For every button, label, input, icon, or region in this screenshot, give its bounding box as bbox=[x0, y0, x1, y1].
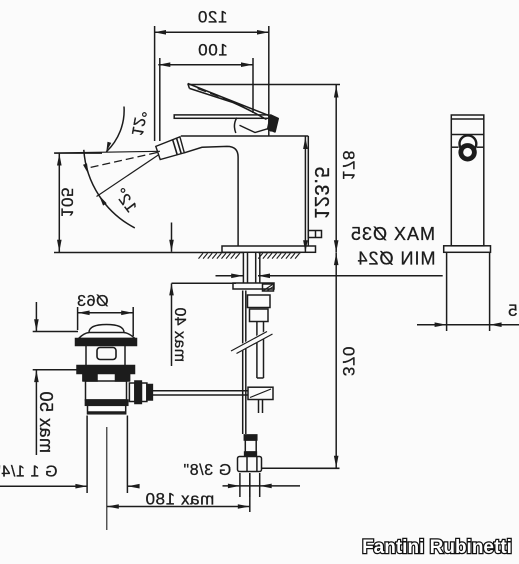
drain side port ribbed nut bbox=[129, 381, 152, 404]
dimension Ø63 line with arrows bbox=[78, 311, 134, 316]
dimension 100 line with arrows bbox=[158, 62, 253, 67]
dimension max 50 ref line top bbox=[33, 331, 78, 333]
drain bottom collar bbox=[88, 405, 126, 414]
dimension 105 line with arrows bbox=[57, 153, 62, 252]
handle heel notch bbox=[240, 125, 272, 132]
svg-text:370: 370 bbox=[339, 346, 358, 376]
dimension 105 text bbox=[58, 187, 77, 217]
dimension max 50 upper arrow bbox=[34, 302, 39, 332]
nut extension lines below bbox=[240, 473, 260, 497]
lever handle dashed midline bbox=[198, 89, 260, 112]
hose end nut G3/8 bbox=[238, 457, 262, 472]
angle arc lower arrow B bbox=[99, 195, 107, 205]
G3/8 right extension line bbox=[262, 467, 340, 469]
handle tail tab bbox=[268, 115, 278, 132]
dimension max 180 line with arrows bbox=[107, 504, 250, 509]
svg-text:G 1 1/4": G 1 1/4" bbox=[0, 464, 57, 481]
dimension 5 text bbox=[507, 301, 517, 320]
svg-text:105: 105 bbox=[58, 187, 77, 217]
side view shank bbox=[447, 252, 490, 331]
hose coupling bbox=[250, 309, 269, 322]
dimension 5 line with arrows bbox=[417, 322, 519, 327]
side view top cap line bbox=[451, 118, 484, 120]
svg-text:178: 178 bbox=[339, 150, 358, 180]
label MAX Ø35 bbox=[350, 224, 435, 244]
dimension 178 top extension line bbox=[188, 84, 340, 86]
max 180 right extension line bbox=[249, 473, 251, 512]
faucet body top line bbox=[181, 135, 308, 137]
angle arc lower arrow A bbox=[83, 163, 89, 174]
svg-text:120: 120 bbox=[197, 7, 227, 26]
dimension max 40 reference line bbox=[172, 282, 237, 284]
svg-text:max 50: max 50 bbox=[36, 391, 56, 453]
drain mid section bbox=[83, 374, 130, 382]
svg-text:G 3/8": G 3/8" bbox=[183, 462, 231, 479]
Ø63 left extension line bbox=[77, 307, 79, 330]
countertop deck line left segment bbox=[54, 252, 243, 254]
side view body outline bbox=[451, 115, 484, 246]
dimension max 50 ref line bottom bbox=[33, 369, 78, 371]
svg-text:Ø63: Ø63 bbox=[76, 293, 108, 310]
countertop hatching bbox=[199, 253, 300, 258]
horizontal drain link pipe bbox=[152, 391, 248, 395]
dimension 120 left extension line bbox=[154, 26, 156, 141]
faucet body arm underside and left edge bbox=[184, 146, 238, 246]
angle label 12deg lower bbox=[110, 185, 139, 216]
pop-up rod tube bbox=[257, 322, 264, 379]
svg-text:Fantini Rubinetti: Fantini Rubinetti bbox=[362, 537, 512, 558]
threaded shank below deck bbox=[243, 253, 259, 284]
faucet body right edge bbox=[307, 136, 309, 246]
dimension G1-1/4 line with arrows bbox=[0, 484, 140, 489]
dimension max 40 lower arrow line bbox=[169, 283, 174, 366]
lever handle blade bbox=[188, 84, 268, 120]
angle arc upper 12deg bbox=[106, 107, 124, 152]
side view handle ring bbox=[460, 135, 477, 152]
dimension 370 bottom extension line bbox=[300, 467, 340, 469]
hose nut bbox=[248, 295, 271, 308]
drain flange band bbox=[76, 339, 137, 346]
faucet base plate bbox=[222, 246, 316, 252]
dimension 120 text bbox=[197, 7, 227, 26]
leader line for hole diameter left part bbox=[216, 274, 244, 279]
label G 3/8 inch bbox=[183, 462, 231, 479]
dimension 100 left extension line bbox=[159, 58, 161, 141]
dimension max 50 text bbox=[36, 391, 56, 453]
svg-text:5: 5 bbox=[507, 301, 517, 320]
Fantini Rubinetti logo bbox=[362, 537, 512, 558]
angle arc lower bbox=[84, 150, 135, 228]
drain plug cap bbox=[79, 325, 136, 339]
supply hose upper bbox=[243, 291, 246, 435]
spout nozzle bbox=[156, 137, 185, 160]
Ø63 right extension line bbox=[132, 307, 134, 336]
svg-text:max 180: max 180 bbox=[145, 490, 214, 509]
stream line 24 degrees bbox=[97, 155, 160, 197]
side view knob bbox=[458, 143, 476, 161]
hose end tube bbox=[245, 440, 256, 452]
svg-text:100: 100 bbox=[198, 41, 228, 60]
dimension G3/8 line with arrows bbox=[223, 484, 301, 489]
svg-text:MAX Ø35: MAX Ø35 bbox=[350, 224, 435, 244]
handle base cap bar bbox=[174, 115, 269, 118]
drain bottom band bbox=[85, 400, 127, 405]
dimension 100 text bbox=[198, 41, 228, 60]
leader line for hole diameter right part bbox=[258, 274, 443, 279]
side view base flange bbox=[444, 246, 491, 253]
dimension 123.5 line with arrows bbox=[303, 137, 308, 253]
drain lower body bbox=[86, 381, 127, 400]
label MIN Ø24 bbox=[356, 249, 435, 269]
dimension max 180 text bbox=[145, 490, 214, 509]
drain band 2 bbox=[77, 366, 135, 374]
dimension 120 right extension line bbox=[268, 26, 270, 136]
dimension max 40 text bbox=[171, 307, 188, 362]
faucet side port stub bbox=[308, 231, 321, 238]
svg-text:MIN Ø24: MIN Ø24 bbox=[356, 249, 435, 269]
dimension 178 line with arrows bbox=[334, 85, 339, 253]
drain centerline bbox=[106, 427, 108, 530]
rod below clamp bbox=[259, 400, 263, 414]
pop-up rod clamp bbox=[248, 387, 273, 399]
dimension 120 line with arrows bbox=[154, 30, 269, 35]
dimension max 40 upper arrow bbox=[169, 223, 174, 252]
dimension max 50 lower arrow line bbox=[34, 370, 39, 455]
svg-text:123.5: 123.5 bbox=[310, 166, 332, 219]
dimension 370 line with arrows bbox=[334, 253, 339, 468]
side view band line bbox=[451, 134, 484, 136]
drain overflow window bbox=[97, 348, 116, 360]
angle label 12deg upper bbox=[128, 109, 149, 138]
countertop deck line right segment bbox=[258, 252, 301, 254]
side view band segments bbox=[451, 146, 484, 148]
pipe break symbol bbox=[231, 332, 273, 354]
label G 1 1/4 inch bbox=[0, 464, 57, 481]
handle pivot dome curve bbox=[234, 118, 236, 133]
drain neck bbox=[86, 346, 125, 366]
dimension 178 text bbox=[339, 150, 358, 180]
mounting flange bbox=[233, 283, 274, 291]
hose end band bbox=[245, 452, 257, 456]
dimension Ø63 text bbox=[76, 293, 108, 310]
stream line 12 degrees dashed bbox=[90, 153, 157, 168]
drain tailpipe bbox=[87, 416, 127, 494]
hose end crimp bbox=[244, 435, 256, 440]
dimension 105 top extension line bbox=[54, 152, 102, 154]
svg-text:max 40: max 40 bbox=[171, 307, 188, 362]
dimension 123.5 text bbox=[310, 166, 332, 219]
dimension 100 right extension line bbox=[252, 58, 254, 113]
stream line horizontal bbox=[54, 151, 160, 153]
dimension 370 text bbox=[339, 346, 358, 376]
